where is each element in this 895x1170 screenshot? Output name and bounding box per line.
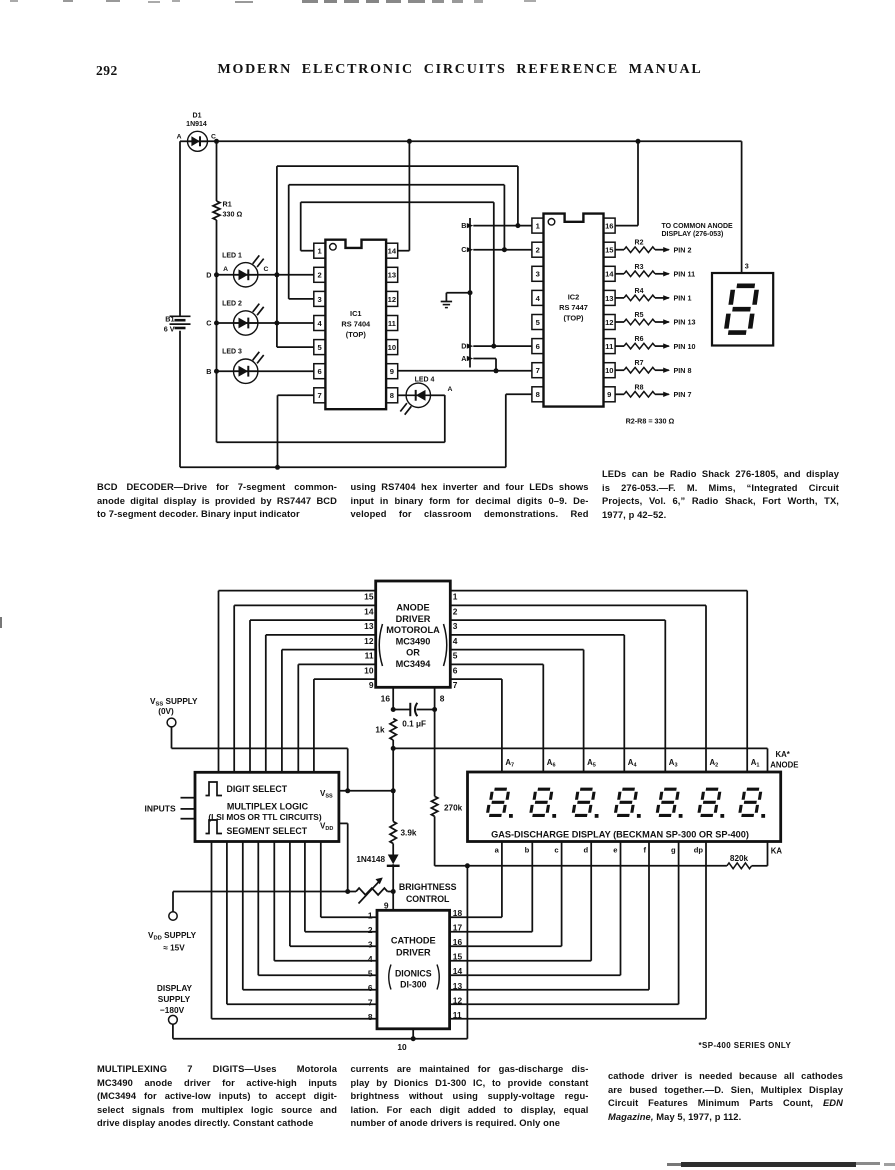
svg-text:1: 1 xyxy=(368,911,373,921)
svg-text:8: 8 xyxy=(368,1012,373,1022)
svg-text:13: 13 xyxy=(605,294,613,303)
caption 2 xyxy=(97,1063,337,1131)
svg-text:DISPLAY (276-053): DISPLAY (276-053) xyxy=(662,231,724,238)
svg-text:16: 16 xyxy=(381,694,391,704)
node: anode column (R1 / LED anodes) xyxy=(216,141,218,201)
svg-text:3: 3 xyxy=(368,940,373,950)
svg-text:11: 11 xyxy=(453,1010,462,1020)
svg-text:7: 7 xyxy=(368,998,373,1008)
svg-text:14: 14 xyxy=(364,606,374,616)
svg-text:ANODE: ANODE xyxy=(770,761,798,770)
svg-text:17: 17 xyxy=(453,923,463,933)
svg-text:8: 8 xyxy=(440,694,445,704)
svg-text:≈ 15V: ≈ 15V xyxy=(163,944,185,953)
svg-text:R1: R1 xyxy=(223,200,232,209)
svg-text:VSS: VSS xyxy=(320,789,333,800)
resistor R8 xyxy=(615,393,624,395)
IC U2: IC2 RS7447 xyxy=(544,214,604,407)
wire: IC1 pin7 to ground rail xyxy=(278,394,314,396)
svg-text:DIGIT SELECT: DIGIT SELECT xyxy=(227,784,288,794)
svg-text:KA: KA xyxy=(771,847,783,856)
svg-text:B: B xyxy=(461,221,466,230)
LED LED 2 xyxy=(234,311,258,335)
svg-text:f: f xyxy=(643,846,646,855)
svg-text:10: 10 xyxy=(605,366,613,375)
svg-text:D1: D1 xyxy=(193,113,202,120)
svg-text:4: 4 xyxy=(453,636,458,646)
wire: Vdd supply / brightness pot rail xyxy=(169,912,177,920)
svg-text:INPUTS: INPUTS xyxy=(145,804,177,814)
svg-text:14: 14 xyxy=(453,966,463,976)
IC: multiplex logic box xyxy=(195,772,339,841)
svg-text:A7: A7 xyxy=(505,758,514,769)
wire: left battery rail xyxy=(179,141,181,315)
svg-text:C: C xyxy=(264,266,269,273)
svg-text:OR: OR xyxy=(406,648,420,658)
svg-text:16: 16 xyxy=(453,937,463,947)
svg-text:12: 12 xyxy=(364,636,374,646)
wire: IC1 pin8 to LED4 xyxy=(398,394,406,396)
wire: pin16 stub xyxy=(392,687,394,709)
wire: anode KA* rail xyxy=(393,747,767,749)
svg-text:(LSI MOS OR TTL CIRCUITS): (LSI MOS OR TTL CIRCUITS) xyxy=(208,812,321,822)
wires: anode driver left pins 15..9 to multiplex logic xyxy=(219,590,376,592)
svg-text:DRIVER: DRIVER xyxy=(396,614,431,624)
svg-text:2: 2 xyxy=(453,606,458,616)
svg-text:1N4148: 1N4148 xyxy=(356,855,385,864)
svg-text:DRIVER: DRIVER xyxy=(396,948,431,958)
svg-text:BRIGHTNESS: BRIGHTNESS xyxy=(399,882,457,892)
svg-text:CONTROL: CONTROL xyxy=(406,894,450,904)
capacitor 0.1uF xyxy=(393,709,410,711)
svg-text:11: 11 xyxy=(388,319,397,328)
wire: LED anode return to LED4 xyxy=(217,441,445,443)
battery B1 6V xyxy=(170,315,191,317)
svg-text:LED 4: LED 4 xyxy=(415,377,435,384)
svg-text:R8: R8 xyxy=(635,384,644,391)
svg-text:A5: A5 xyxy=(587,758,596,769)
svg-text:270k: 270k xyxy=(444,804,463,813)
resistor R3 xyxy=(615,273,624,275)
svg-text:PIN 2: PIN 2 xyxy=(674,245,692,254)
svg-text:A: A xyxy=(177,134,182,141)
node C input arrow xyxy=(473,249,532,251)
svg-text:6 V: 6 V xyxy=(164,324,175,333)
svg-text:C: C xyxy=(461,245,466,254)
node D input arrow xyxy=(473,345,532,347)
wire: input row D xyxy=(217,274,314,276)
svg-text:1: 1 xyxy=(453,592,458,602)
svg-text:B: B xyxy=(206,367,211,376)
svg-text:CATHODE: CATHODE xyxy=(391,936,436,946)
wire: net IC1 pin1 to IC2 pin6 (D) xyxy=(300,202,302,251)
svg-text:16: 16 xyxy=(605,222,613,231)
svg-text:14: 14 xyxy=(388,247,397,256)
wire: input row B xyxy=(217,370,314,372)
resistor 1k xyxy=(390,719,396,741)
svg-text:13: 13 xyxy=(364,621,374,631)
wire: IC1 pin9 to IC2 pin7 xyxy=(398,370,532,372)
svg-text:7: 7 xyxy=(453,680,458,690)
svg-text:4: 4 xyxy=(536,294,541,303)
svg-text:5: 5 xyxy=(317,343,322,352)
top scan artifacts xyxy=(10,0,18,2)
svg-text:A3: A3 xyxy=(669,758,678,769)
IC: anode driver MC3490/MC3494 xyxy=(376,581,451,687)
diode D1 1N914 xyxy=(188,131,208,151)
svg-text:4: 4 xyxy=(368,954,373,964)
left edge artifact xyxy=(0,617,2,628)
wire: IC1 pin14 to +V rail xyxy=(398,250,410,252)
svg-text:A4: A4 xyxy=(628,758,638,769)
svg-text:3: 3 xyxy=(536,270,540,279)
svg-text:VDD SUPPLY: VDD SUPPLY xyxy=(148,931,197,942)
svg-text:330 Ω: 330 Ω xyxy=(223,210,243,219)
svg-text:VSS SUPPLY: VSS SUPPLY xyxy=(150,697,198,708)
svg-text:7: 7 xyxy=(536,366,540,375)
svg-text:A: A xyxy=(223,266,228,273)
svg-text:11: 11 xyxy=(365,651,374,661)
svg-text:IC2: IC2 xyxy=(568,293,580,302)
caption 1 xyxy=(97,481,337,522)
wire: Vss supply rail xyxy=(167,718,176,727)
svg-text:d: d xyxy=(584,846,589,855)
resistor R1 330 ohm xyxy=(213,201,220,220)
svg-text:8: 8 xyxy=(390,391,394,400)
page header xyxy=(96,63,118,79)
svg-text:1: 1 xyxy=(536,222,541,231)
svg-text:GAS-DISCHARGE DISPLAY (BECKMAN: GAS-DISCHARGE DISPLAY (BECKMAN SP-300 OR… xyxy=(491,830,749,840)
svg-text:3: 3 xyxy=(453,621,458,631)
svg-text:MULTIPLEX LOGIC: MULTIPLEX LOGIC xyxy=(227,802,309,812)
resistor R7 xyxy=(615,369,624,371)
svg-text:g: g xyxy=(671,846,676,855)
svg-text:10: 10 xyxy=(397,1042,407,1052)
svg-text:−180V: −180V xyxy=(160,1005,185,1015)
wire: top supply rail xyxy=(208,140,742,142)
svg-text:MOTOROLA: MOTOROLA xyxy=(386,625,440,635)
wire: display supply rail xyxy=(466,866,468,1039)
svg-text:PIN 1: PIN 1 xyxy=(674,294,692,303)
svg-text:R2: R2 xyxy=(635,240,644,247)
svg-text:R7: R7 xyxy=(635,360,644,367)
svg-text:a: a xyxy=(495,846,500,855)
svg-text:DI-300: DI-300 xyxy=(400,980,427,990)
wire: cathode driver pin10 stub xyxy=(412,1029,414,1039)
svg-text:12: 12 xyxy=(388,295,396,304)
resistor R2 xyxy=(615,249,624,251)
wires: cathode driver right pins 18..11 to display cathodes xyxy=(450,916,502,918)
svg-text:7: 7 xyxy=(317,391,321,400)
wire: input row C xyxy=(217,322,314,324)
wires: segment select verticals to cathode driver pins 1..8 xyxy=(320,842,322,918)
svg-text:9: 9 xyxy=(390,367,394,376)
display: gas-discharge display xyxy=(468,772,781,842)
wires: anode driver right pins 1..7 to display anodes xyxy=(450,590,747,592)
svg-text:10: 10 xyxy=(388,343,396,352)
svg-text:(TOP): (TOP) xyxy=(564,314,585,323)
LED LED 4 xyxy=(406,383,430,407)
wire: Vdd pin of logic box to pot rail xyxy=(339,822,348,824)
svg-text:DISPLAY: DISPLAY xyxy=(157,983,193,993)
resistor R6 xyxy=(615,345,624,347)
node: input bus line xyxy=(469,218,471,368)
svg-text:8: 8 xyxy=(536,390,540,399)
svg-text:e: e xyxy=(613,846,617,855)
svg-text:1N914: 1N914 xyxy=(186,121,207,128)
svg-text:(0V): (0V) xyxy=(158,707,174,716)
svg-text:R5: R5 xyxy=(635,312,644,319)
svg-text:6: 6 xyxy=(453,665,458,675)
svg-text:RS 7447: RS 7447 xyxy=(559,303,588,312)
svg-text:9: 9 xyxy=(607,390,611,399)
svg-text:3.9k: 3.9k xyxy=(401,829,417,838)
svg-text:RS 7404: RS 7404 xyxy=(341,320,371,329)
svg-text:C: C xyxy=(211,134,216,141)
svg-text:15: 15 xyxy=(364,592,374,602)
svg-text:PIN 8: PIN 8 xyxy=(674,366,692,375)
LED LED 1 xyxy=(234,263,258,287)
wire: IC2 pin16 to +V rail xyxy=(615,225,638,227)
svg-text:LED 3: LED 3 xyxy=(222,349,242,356)
wire: pin8 stub / 270k branch xyxy=(434,687,436,796)
svg-text:A: A xyxy=(461,354,466,363)
IC: cathode driver DI-300 xyxy=(377,910,450,1029)
svg-text:R2-R8 = 330 Ω: R2-R8 = 330 Ω xyxy=(626,417,675,426)
svg-text:2: 2 xyxy=(536,246,540,255)
wire: KA cathode rail xyxy=(435,865,727,867)
diode 1N4148 xyxy=(388,855,399,865)
svg-text:D: D xyxy=(461,342,466,351)
resistor 820k xyxy=(727,863,752,869)
svg-text:B1: B1 xyxy=(165,315,174,324)
svg-text:MC3494: MC3494 xyxy=(396,659,432,669)
svg-text:c: c xyxy=(554,846,558,855)
svg-text:5: 5 xyxy=(368,969,373,979)
wire: +V rail to 7-segment display pin 3 xyxy=(741,141,743,273)
svg-text:R6: R6 xyxy=(635,336,644,343)
svg-text:1k: 1k xyxy=(375,726,385,735)
LED LED 3 xyxy=(234,359,258,383)
svg-text:dp: dp xyxy=(694,846,704,855)
svg-text:PIN 13: PIN 13 xyxy=(674,318,696,327)
resistor R5 xyxy=(615,321,624,323)
wire: net IC1 pin3 to IC2 pin2 (C) xyxy=(288,185,290,299)
svg-text:VDD: VDD xyxy=(320,821,333,832)
svg-text:4: 4 xyxy=(317,319,322,328)
svg-text:C: C xyxy=(206,319,211,328)
svg-text:0.1 μF: 0.1 μF xyxy=(402,720,426,729)
svg-text:PIN 11: PIN 11 xyxy=(674,270,696,279)
wire: Vss pin of logic box xyxy=(339,790,393,792)
svg-text:A6: A6 xyxy=(547,758,556,769)
svg-text:A1: A1 xyxy=(751,758,760,769)
bottom right artifact xyxy=(667,1163,681,1166)
op-amp / IC U1: IC1 RS7404 xyxy=(325,240,386,410)
svg-text:TO COMMON ANODE: TO COMMON ANODE xyxy=(662,223,733,230)
svg-text:1: 1 xyxy=(317,247,322,256)
svg-text:LED 1: LED 1 xyxy=(222,252,242,259)
svg-text:2: 2 xyxy=(317,271,321,280)
svg-text:2: 2 xyxy=(368,925,373,935)
svg-text:IC1: IC1 xyxy=(350,309,362,318)
ground symbol xyxy=(446,292,470,294)
svg-text:3: 3 xyxy=(745,262,749,271)
7-segment display 276-053 xyxy=(712,273,773,346)
svg-text:SUPPLY: SUPPLY xyxy=(158,994,191,1004)
svg-text:b: b xyxy=(525,846,530,855)
svg-text:14: 14 xyxy=(605,270,614,279)
svg-text:R4: R4 xyxy=(635,288,644,295)
svg-text:820k: 820k xyxy=(730,854,749,863)
svg-text:5: 5 xyxy=(536,318,541,327)
svg-text:R3: R3 xyxy=(635,264,644,271)
svg-text:15: 15 xyxy=(453,952,463,962)
wire: bottom ground rail xyxy=(180,466,506,468)
svg-text:10: 10 xyxy=(364,665,374,675)
svg-text:ANODE: ANODE xyxy=(396,603,429,613)
svg-text:13: 13 xyxy=(388,271,396,280)
svg-text:PIN 7: PIN 7 xyxy=(674,390,692,399)
resistor 270k xyxy=(431,796,437,816)
svg-text:A: A xyxy=(448,386,453,393)
svg-text:KA*: KA* xyxy=(776,750,791,759)
svg-text:DIONICS: DIONICS xyxy=(395,969,432,979)
node B input arrow xyxy=(473,225,532,227)
svg-text:*SP-400 SERIES ONLY: *SP-400 SERIES ONLY xyxy=(699,1041,792,1050)
svg-text:3: 3 xyxy=(317,295,321,304)
resistor R4 xyxy=(615,297,624,299)
svg-text:13: 13 xyxy=(453,981,463,991)
svg-text:(TOP): (TOP) xyxy=(346,330,367,339)
svg-text:A2: A2 xyxy=(710,758,719,769)
potentiometer: brightness control xyxy=(356,888,388,895)
svg-text:LED 2: LED 2 xyxy=(222,301,242,308)
svg-text:MC3490: MC3490 xyxy=(396,636,431,646)
svg-text:SEGMENT SELECT: SEGMENT SELECT xyxy=(227,826,308,836)
svg-text:18: 18 xyxy=(453,908,463,918)
node A input arrow xyxy=(473,358,496,360)
svg-text:6: 6 xyxy=(368,983,373,993)
svg-text:6: 6 xyxy=(317,367,321,376)
svg-text:6: 6 xyxy=(536,342,540,351)
svg-text:11: 11 xyxy=(605,342,614,351)
wire: net IC1 pin5/pin2/pin4 to IC2 pin1 (B) xyxy=(276,166,278,347)
resistor 3.9k xyxy=(390,822,396,844)
svg-text:PIN 10: PIN 10 xyxy=(674,342,696,351)
svg-text:5: 5 xyxy=(453,651,458,661)
svg-text:12: 12 xyxy=(453,995,463,1005)
svg-text:15: 15 xyxy=(605,246,614,255)
svg-text:D: D xyxy=(206,270,211,279)
svg-text:12: 12 xyxy=(605,318,613,327)
svg-text:9: 9 xyxy=(369,680,374,690)
